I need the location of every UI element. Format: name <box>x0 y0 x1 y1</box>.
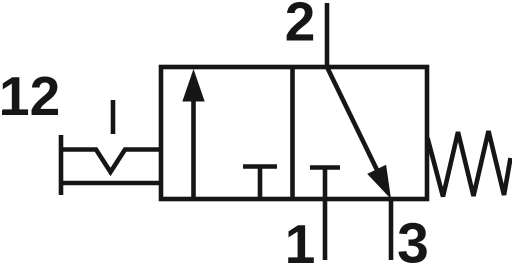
svg-text:2: 2 <box>285 0 316 53</box>
flow path arrowhead (right position) <box>367 165 391 199</box>
blocked port T (left position) <box>243 164 277 169</box>
return spring <box>428 131 511 197</box>
label 1 foot serif <box>290 258 311 263</box>
port 3 stem <box>389 199 394 260</box>
blocked port T (right position) <box>310 165 340 170</box>
pilot bottom rail <box>61 181 161 186</box>
flow path arrow (left position, pass) <box>191 96 196 199</box>
pilot plunger tick <box>111 100 116 134</box>
port 1 stem <box>323 168 328 261</box>
svg-text:3: 3 <box>397 212 429 267</box>
valve body (two-position box) <box>161 67 427 199</box>
label 12 foot serif of 1 <box>2 110 21 115</box>
pilot end cap <box>59 135 64 195</box>
svg-text:12: 12 <box>0 65 60 127</box>
position divider <box>290 67 295 199</box>
port 2 line <box>325 3 330 67</box>
pilot top rail with notch <box>61 150 161 173</box>
flow path arrowhead (left position) <box>182 69 204 102</box>
blocked port T stem (left position) <box>258 167 263 200</box>
flow path diagonal 2-3 (right position) <box>327 67 378 171</box>
